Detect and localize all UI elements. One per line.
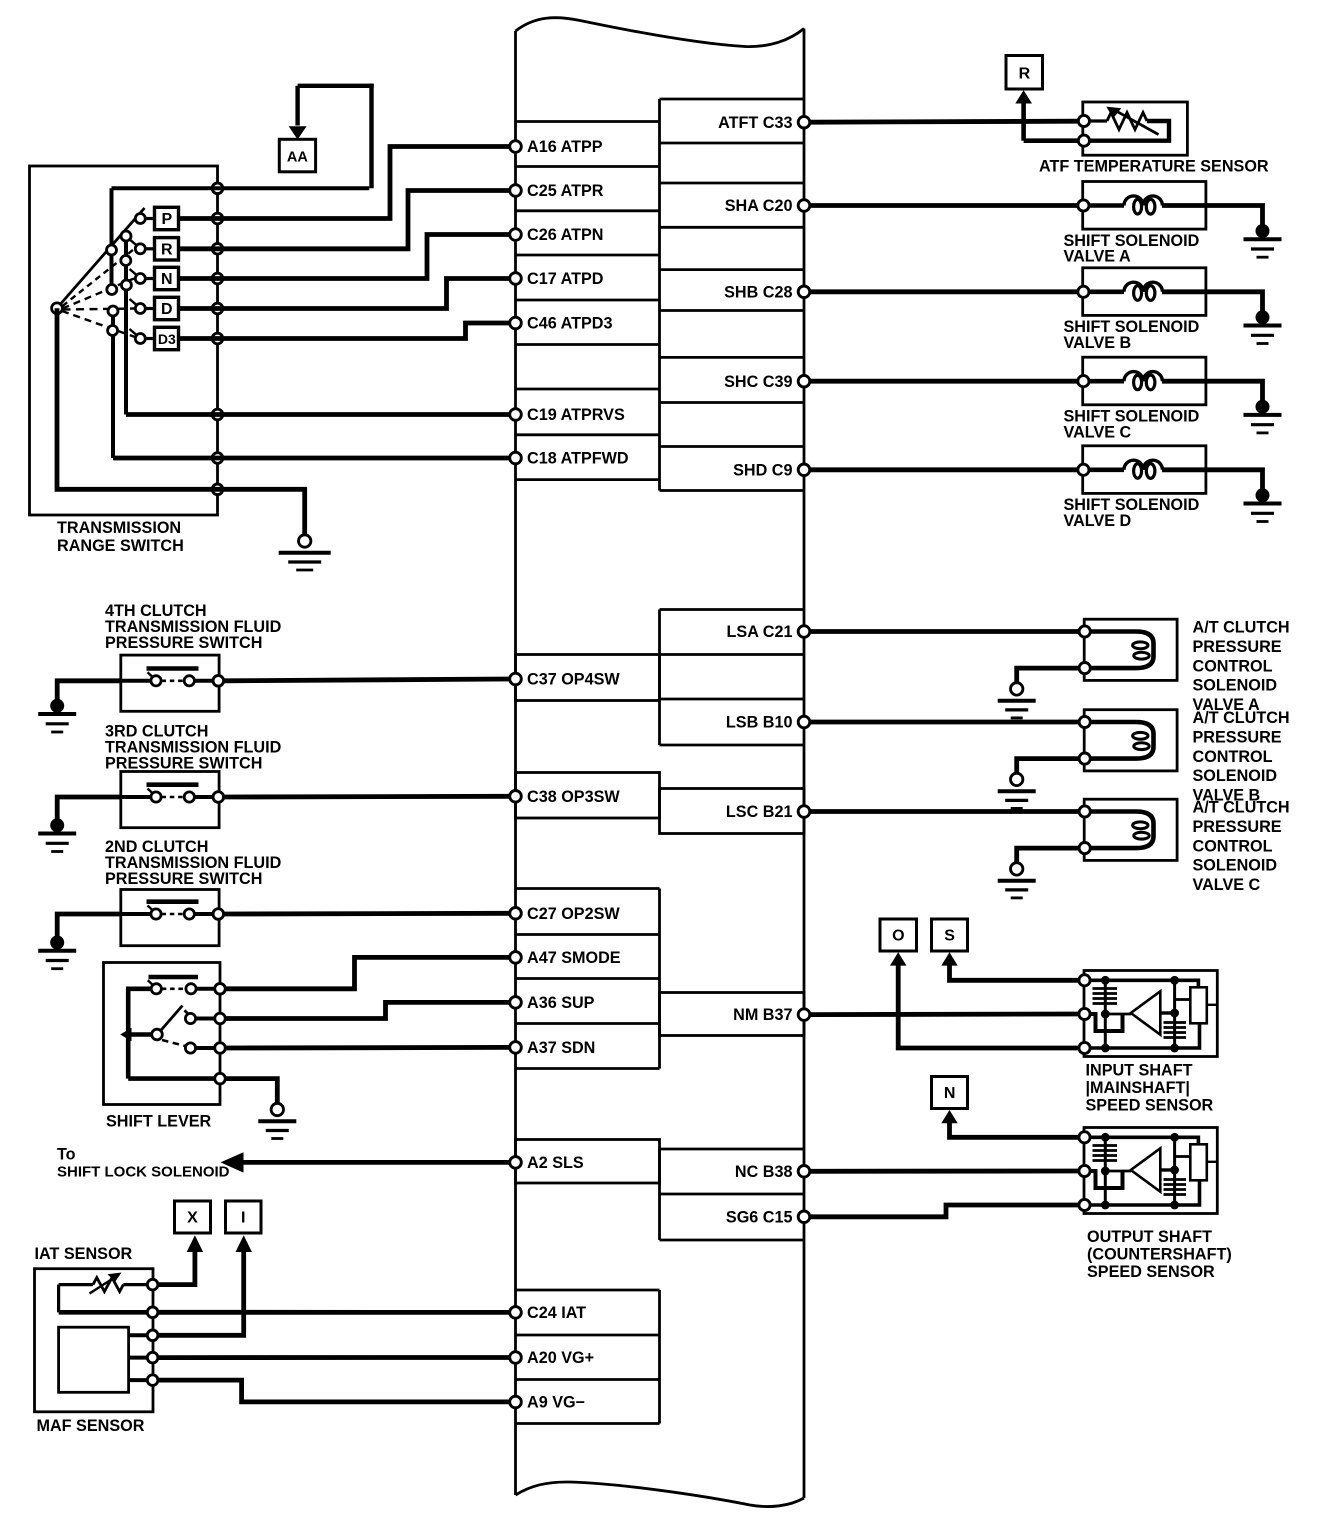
connector X box [175,1201,211,1233]
svg-text:PRESSURE SWITCH: PRESSURE SWITCH [105,870,262,888]
svg-text:OUTPUT SHAFT: OUTPUT SHAFT [1087,1228,1212,1246]
shift lever SMODE contact left [151,984,161,994]
wire shift solenoid valve B to ground [1162,292,1263,312]
right cell grid NC B38/SG6 C15 [660,1148,805,1151]
input shaft speed sensor amp output wire [1160,1011,1174,1014]
input shaft speed sensor signal step wire [1090,1014,1123,1031]
cell box NM B37 [660,993,805,1036]
svg-text:N: N [944,1085,956,1102]
svg-text:ATF TEMPERATURE SENSOR: ATF TEMPERATURE SENSOR [1039,158,1269,176]
2ND CLUTCH TRANSMISSION FLUID PRESSURE SWITCH contact right [184,909,194,919]
svg-text:NC B38: NC B38 [735,1163,793,1181]
input shaft speed sensor pickup coil vertical [1104,980,1107,1048]
wire shift solenoid valve C to ground [1162,381,1263,401]
MAF stub 2 [129,1356,148,1360]
A/T clutch valve B terminal 1 [1079,716,1090,727]
pin C19 ATPRVS [510,409,522,421]
svg-text:A/T CLUTCH: A/T CLUTCH [1193,799,1290,817]
svg-text:C27 OP2SW: C27 OP2SW [527,905,620,923]
wire D contact to pin C17 ATPD [179,279,511,309]
svg-text:CONTROL: CONTROL [1193,748,1273,766]
svg-text:To: To [57,1146,76,1164]
wire A/T clutch valve A to ground [1017,668,1079,683]
shift lever SDN stub [196,1046,215,1050]
shift solenoid valve A box [1083,182,1206,230]
arrowhead into I [236,1235,252,1252]
wire shift solenoid valve D to ground [1162,470,1263,490]
position box P [155,207,179,229]
A/T clutch valve B coil [1090,722,1154,759]
shift solenoid valve D box [1083,446,1206,494]
svg-text:A9 VG−: A9 VG− [527,1394,585,1412]
svg-text:A20 VG+: A20 VG+ [527,1349,594,1367]
3RD CLUTCH TRANSMISSION FLUID PRESSURE SWITCH edge node [213,792,224,803]
A/T clutch valve C ground symbol [1011,863,1023,875]
wire AA branch vertical [369,84,373,189]
TRS edge node common ground [212,484,223,495]
cell box C37 OP4SW [516,655,660,701]
TRS gang contact upper [121,231,131,241]
wire pin to shift solenoid valve B [810,289,1078,294]
svg-text:C25 ATPR: C25 ATPR [527,182,604,200]
input shaft speed sensor terminal 1 [1079,975,1090,986]
IAT thermistor wire right [123,1283,148,1286]
pin A2 SLS [510,1157,522,1169]
position box D3 [155,327,179,349]
TRS edge node P [212,213,223,224]
pin SHB C28 [798,286,810,298]
wire pin to A/T clutch pressure control solenoid valve B [810,720,1079,725]
4TH CLUTCH TRANSMISSION FLUID PRESSURE SWITCH wire left stub [121,679,151,683]
svg-text:SHIFT LOCK SOLENOID: SHIFT LOCK SOLENOID [57,1164,230,1181]
TRS gang contact N level [107,285,117,295]
MAF stub 1 [129,1333,148,1337]
TRS gang contact R level [107,245,117,255]
TRS contact P [135,214,145,224]
shift lever pivot wire [130,1032,152,1037]
3RD CLUTCH TRANSMISSION FLUID PRESSURE SWITCH box [121,772,219,828]
position box R [155,238,179,260]
pin A9 VG− [510,1396,522,1408]
4TH CLUTCH TRANSMISSION FLUID PRESSURE SWITCH dashed contact gap [162,679,185,682]
wire MAF to pin A9 VG- [158,1380,510,1402]
cell divider line section 1 [658,99,661,491]
ATF thermistor resistor [1107,113,1147,130]
svg-text:RANGE SWITCH: RANGE SWITCH [57,537,184,555]
svg-text:C46 ATPD3: C46 ATPD3 [527,315,612,333]
TRS edge node R [212,244,223,255]
connector I box [226,1201,262,1233]
svg-text:PRESSURE SWITCH: PRESSURE SWITCH [105,634,262,652]
transmission range switch box [30,166,218,515]
input shaft speed sensor terminal 3 [1079,1042,1090,1053]
TRS contact N [135,274,145,284]
shift lever wiper arm dash up [185,1010,190,1015]
input shaft speed sensor top rail [1090,980,1198,987]
TRS ground symbol [299,535,311,547]
pin LSA C21 [798,626,810,638]
svg-text:SHIFT LEVER: SHIFT LEVER [106,1113,212,1131]
IAT thermistor wire left [59,1283,93,1286]
svg-text:VALVE C: VALVE C [1193,876,1261,894]
TRS gang bar to C19 ATPRVS [124,236,128,415]
A/T clutch valve C terminal 2 [1079,843,1090,854]
wire pin SG6 C15 to output sensor terminal 3 [810,1205,1078,1217]
shift lever wiper arm [161,1006,183,1031]
output shaft (countershaft) speed sensor pickup coil bars [1093,1144,1118,1147]
2ND CLUTCH TRANSMISSION FLUID PRESSURE SWITCH ground symbol [50,936,64,950]
output shaft (countershaft) speed sensor amplifier triangle [1131,1148,1161,1191]
shift lever common bar [126,989,131,1079]
svg-text:N: N [161,271,173,288]
shift solenoid valve A ground symbol [1256,224,1270,238]
wire TRS common to ground [57,308,305,535]
svg-text:SPEED SENSOR: SPEED SENSOR [1087,1263,1215,1281]
shift lever edge node common [215,1073,226,1084]
TRS gang contact lower [121,280,131,290]
pin A47 SMODE [510,952,522,964]
svg-text:LSA C21: LSA C21 [727,623,793,641]
wire shift lever common to ground [225,1079,277,1104]
wire R arrow shaft [1021,103,1026,141]
pin NC B38 [798,1166,810,1178]
position box D [155,297,179,319]
wire A/T clutch valve C to ground [1017,848,1079,863]
PCM connector band left edge [514,31,517,1495]
ATF sensor terminal 1 [1078,115,1089,126]
wire R contact to pin C25 ATPR [179,191,511,249]
IAT terminal node upper [147,1279,158,1290]
arrowhead to shift lock solenoid [221,1152,244,1172]
position box N [155,267,179,289]
svg-text:X: X [187,1210,198,1227]
wire N to output sensor terminal 1 [950,1123,1079,1138]
MAF terminal node 3 [147,1375,158,1386]
wire P contact to pin A16 ATPP [179,147,511,219]
svg-text:TRANSMISSION: TRANSMISSION [57,519,181,537]
TRS edge node N [212,273,223,284]
IAT thermistor resistor [93,1278,123,1292]
wire A/T clutch valve B to ground [1017,759,1079,774]
wire 3RD CLUTCH TRANSMISSION FLUID PRESSURE SWITCH to PCM pin [224,794,510,800]
svg-text:O: O [892,928,904,945]
input shaft speed sensor pickup coil bars [1093,987,1118,990]
input shaft speed sensor resistor tap wire [1175,998,1191,1001]
svg-text:D: D [161,301,173,318]
svg-text:(COUNTERSHAFT): (COUNTERSHAFT) [1087,1246,1232,1264]
TRS contact D [135,304,145,314]
IAT thermistor arrow [90,1278,115,1294]
svg-text:C26 ATPN: C26 ATPN [527,226,603,244]
svg-text:A37 SDN: A37 SDN [527,1039,595,1057]
A/T clutch pressure control solenoid valve C box [1084,799,1177,860]
output shaft (countershaft) speed sensor terminal 3 [1079,1199,1090,1210]
TRS gang bar to C18 ATPFWD [111,311,115,458]
svg-text:A/T CLUTCH: A/T CLUTCH [1193,619,1290,637]
output shaft (countershaft) speed sensor resistor [1190,1144,1207,1180]
A/T clutch valve B terminal 2 [1079,753,1090,764]
pin A36 SUP [510,997,522,1009]
wire S to input sensor terminal 1 [950,965,1079,980]
3RD CLUTCH TRANSMISSION FLUID PRESSURE SWITCH ground symbol [50,818,64,832]
cell box C38 OP3SW [516,773,660,819]
pin LSB B10 [798,716,810,728]
output shaft (countershaft) speed sensor bottom rail [1090,1180,1200,1205]
connector R box [1006,56,1043,90]
svg-text:A16 ATPP: A16 ATPP [527,138,603,156]
wire shift solenoid valve A to ground [1162,206,1263,226]
wire pin NC B38 to output sensor terminal 2 [810,1169,1078,1174]
shift lever SUP contact [185,1013,195,1023]
svg-text:C24 IAT: C24 IAT [527,1304,586,1322]
svg-text:PRESSURE SWITCH: PRESSURE SWITCH [105,755,262,773]
output shaft (countershaft) speed sensor top rail [1090,1137,1198,1144]
svg-text:VALVE B: VALVE B [1064,334,1132,352]
4TH CLUTCH TRANSMISSION FLUID PRESSURE SWITCH diaphragm bar [147,666,199,671]
input shaft speed sensor resistor [1190,987,1207,1023]
4TH CLUTCH TRANSMISSION FLUID PRESSURE SWITCH contact right [184,676,194,686]
pin SHD C9 [798,464,810,476]
svg-text:SHD C9: SHD C9 [733,461,792,479]
4TH CLUTCH TRANSMISSION FLUID PRESSURE SWITCH edge node [213,676,224,687]
shift lever edge node SMODE [215,984,226,995]
TRS wiper dashed throw to N [63,279,135,309]
pin LSC B21 [798,806,810,818]
2ND CLUTCH TRANSMISSION FLUID PRESSURE SWITCH box [121,890,219,946]
wire pin to A/T clutch pressure control solenoid valve A [810,629,1079,634]
shift solenoid valve C coil [1089,379,1124,384]
svg-text:SOLENOID: SOLENOID [1193,677,1278,695]
4TH CLUTCH TRANSMISSION FLUID PRESSURE SWITCH ground symbol [50,699,64,713]
input shaft speed sensor amplifier triangle [1131,991,1161,1034]
output shaft (countershaft) speed sensor box [1084,1128,1217,1214]
output shaft (countershaft) speed sensor junction dots [1101,1133,1110,1142]
pin C25 ATPR [510,185,522,197]
ATF temperature sensor box [1083,102,1188,155]
wire 2ND CLUTCH TRANSMISSION FLUID PRESSURE SWITCH to ground [57,914,121,937]
A/T clutch pressure control solenoid valve A box [1084,619,1177,680]
input shaft speed sensor box [1084,971,1217,1057]
svg-text:A2 SLS: A2 SLS [527,1154,584,1172]
left cell grid C24/A20/A9 [516,1289,660,1292]
input shaft speed sensor resistor stub to case [1207,1004,1218,1006]
pin C18 ATPFWD [510,452,522,464]
wire SDN to pin A37 [225,1045,510,1050]
TRS edge node ATPFWD [212,453,223,464]
shift lever bottom common wire [128,1076,215,1081]
svg-text:PRESSURE: PRESSURE [1193,729,1282,747]
svg-text:VALVE A: VALVE A [1064,248,1131,266]
pin SG6 C15 [798,1211,810,1223]
3RD CLUTCH TRANSMISSION FLUID PRESSURE SWITCH diaphragm bar [147,782,199,787]
TRS contact D3 [135,334,145,344]
pin SHC C39 [798,375,810,387]
shift solenoid valve B coil [1089,289,1124,294]
wire MAF node1 to I connector [158,1252,244,1335]
3RD CLUTCH TRANSMISSION FLUID PRESSURE SWITCH wire right stub [194,795,213,799]
wire 3RD CLUTCH TRANSMISSION FLUID PRESSURE SWITCH to ground [57,797,121,819]
left cell grid C27-A37 [516,887,660,890]
4TH CLUTCH TRANSMISSION FLUID PRESSURE SWITCH wire right stub [194,679,213,683]
svg-text:R: R [1019,66,1031,83]
wire IAT node to X connector [158,1252,195,1285]
wire O to input sensor terminal 3 [898,965,1079,1048]
pin A16 ATPP [510,141,522,153]
A/T clutch valve C terminal 1 [1079,806,1090,817]
shift solenoid valve B ground symbol [1256,310,1270,324]
2ND CLUTCH TRANSMISSION FLUID PRESSURE SWITCH diaphragm bar [147,899,199,904]
3RD CLUTCH TRANSMISSION FLUID PRESSURE SWITCH contact right [184,792,194,802]
svg-text:CONTROL: CONTROL [1193,657,1273,675]
wire pin to shift solenoid valve D [810,467,1078,472]
arrowhead into N [941,1110,957,1123]
pin SHA C20 [798,200,810,212]
connector N box [932,1077,968,1109]
output shaft (countershaft) speed sensor signal step wire [1090,1171,1123,1188]
svg-text:AA: AA [287,150,308,166]
shift solenoid valve D coil [1089,467,1124,472]
svg-text:LSC B21: LSC B21 [726,803,793,821]
pin C26 ATPN [510,229,522,241]
2ND CLUTCH TRANSMISSION FLUID PRESSURE SWITCH wire right stub [194,912,213,916]
MAF stub 3 [129,1378,148,1382]
IAT output wire inside [59,1310,148,1315]
svg-text:|MAINSHAFT|: |MAINSHAFT| [1086,1079,1190,1097]
ATF thermistor loop [1090,121,1170,141]
cell box LSC B21 [660,789,805,834]
svg-text:C17 ATPD: C17 ATPD [527,270,604,288]
IAT terminal node C24 [147,1307,158,1318]
input shaft speed sensor filter coil bars [1164,1021,1187,1024]
wire ATF sensor return to R [1024,138,1079,143]
TRS edge node ATPRVS [212,409,223,420]
wire 2ND CLUTCH TRANSMISSION FLUID PRESSURE SWITCH to PCM pin [224,911,510,917]
svg-text:PRESSURE: PRESSURE [1193,638,1282,656]
wire SUP to pin A36 [225,1002,510,1018]
shift lever SMODE right stub [196,987,215,991]
input shaft speed sensor junction dots [1101,976,1110,985]
PCM connector band right edge [803,29,806,1499]
TRS wiper dashed throw to D3 [62,311,135,337]
arrowhead into X [187,1235,203,1252]
wire pin to shift solenoid valve A [810,203,1078,208]
2ND CLUTCH TRANSMISSION FLUID PRESSURE SWITCH contact left [151,909,161,919]
shift lever diaphragm bar [149,975,199,980]
output shaft (countershaft) speed sensor filter coil vertical [1173,1137,1176,1205]
TRS edge node top output [212,183,223,194]
cell box A2 SLS [516,1140,660,1184]
shift lever SMODE left wire [126,986,151,991]
shift lever SDN contact [185,1043,195,1053]
shift lever ground symbol [271,1103,283,1115]
shift lever SMODE contact right [186,984,196,994]
TRS wiper pivot [52,303,63,314]
svg-text:D3: D3 [158,331,176,347]
4TH CLUTCH TRANSMISSION FLUID PRESSURE SWITCH contact left [151,676,161,686]
pin C27 OP2SW [510,908,522,920]
wire MAF to pin A20 VG+ [158,1355,510,1360]
3RD CLUTCH TRANSMISSION FLUID PRESSURE SWITCH dashed contact gap [162,796,185,799]
pin C24 IAT [510,1307,522,1319]
wire D3 contact to pin C46 ATPD3 [179,323,511,339]
wire pin to shift solenoid valve C [810,379,1078,384]
svg-text:INPUT SHAFT: INPUT SHAFT [1086,1062,1193,1080]
shift solenoid valve C box [1083,357,1206,405]
shift solenoid valve D ground symbol [1256,488,1270,502]
TRS wiper dashed throw to D [63,309,135,310]
A/T clutch valve C coil [1090,812,1154,849]
svg-text:SHC C39: SHC C39 [724,373,792,391]
pin C46 ATPD3 [510,317,522,329]
output shaft (countershaft) speed sensor pickup coil vertical [1104,1137,1107,1205]
wire pin NM B37 to input sensor terminal 2 [810,1012,1079,1017]
wire TRS to pin C19 ATPRVS [126,412,510,417]
A/T clutch valve A ground symbol [1011,683,1023,695]
svg-text:A47 SMODE: A47 SMODE [527,949,621,967]
2ND CLUTCH TRANSMISSION FLUID PRESSURE SWITCH wire left stub [121,912,151,916]
wire pin ATFT C33 to ATF sensor [810,121,1079,122]
pin A20 VG+ [510,1352,522,1364]
svg-text:C19 ATPRVS: C19 ATPRVS [527,406,625,424]
connector AA box [279,139,315,172]
svg-text:PRESSURE: PRESSURE [1193,818,1282,836]
wire TRS common gang to AA branch [112,186,370,190]
pin ATFT C33 [798,116,810,128]
svg-text:P: P [161,211,172,228]
A/T clutch valve A terminal 1 [1079,626,1090,637]
wire pin A2 SLS to shift lock solenoid [242,1160,510,1165]
arrowhead into S [941,952,957,965]
svg-text:C38 OP3SW: C38 OP3SW [527,788,620,806]
output shaft (countershaft) speed sensor terminal 1 [1079,1132,1090,1143]
wire AA branch top [298,84,374,88]
TRS edge node D [212,303,223,314]
connector O box [880,919,917,951]
shift solenoid valve A terminal [1078,200,1089,211]
wire pin to A/T clutch pressure control solenoid valve C [810,809,1079,814]
shift lever SMODE dashed gap [162,987,186,990]
svg-text:ATFT C33: ATFT C33 [718,114,792,132]
input shaft speed sensor terminal 2 [1079,1008,1090,1019]
3RD CLUTCH TRANSMISSION FLUID PRESSURE SWITCH wire left stub [121,795,151,799]
pin A37 SDN [510,1042,522,1054]
shift lever edge node SUP [215,1013,226,1024]
pin C37 OP4SW [510,673,522,685]
svg-text:LSB B10: LSB B10 [726,714,793,732]
svg-text:IAT SENSOR: IAT SENSOR [35,1245,133,1263]
arrowhead into AA [289,126,307,139]
input shaft speed sensor filter coil vertical [1173,980,1176,1048]
PCM band bottom torn edge [516,1482,805,1507]
3RD CLUTCH TRANSMISSION FLUID PRESSURE SWITCH contact left [151,792,161,802]
shift solenoid valve B box [1083,268,1206,316]
ATF sensor terminal 2 [1078,135,1089,146]
wire IAT to pin C24 IAT [158,1310,510,1315]
shift solenoid valve D terminal [1078,464,1089,475]
shift solenoid valve C ground symbol [1256,400,1270,414]
svg-text:SHB C28: SHB C28 [724,283,792,301]
ATF thermistor arrow [1117,111,1159,134]
svg-text:A/T CLUTCH: A/T CLUTCH [1193,709,1290,727]
svg-text:SOLENOID: SOLENOID [1193,857,1278,875]
IAT/MAF sensor outer box [35,1269,154,1412]
TRS wiper dashed throw to R [63,250,134,307]
right pin cell grid ATFT-SHD [660,98,805,101]
2ND CLUTCH TRANSMISSION FLUID PRESSURE SWITCH edge node [213,909,224,920]
TRS gang contact mid [121,256,131,266]
output shaft (countershaft) speed sensor terminal 2 [1079,1165,1090,1176]
shift solenoid valve A coil [1089,203,1124,208]
